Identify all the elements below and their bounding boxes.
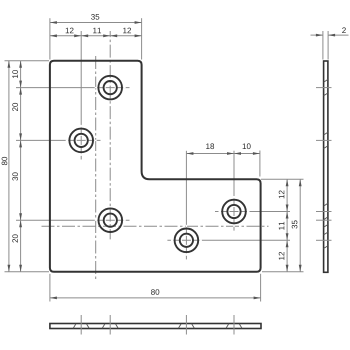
centerline: hole H1 row [16, 87, 130, 89]
side view hole marks H5 [324, 232, 328, 235]
bottom view hole marks H2 [73, 324, 76, 328]
label 12 (top left) [66, 28, 74, 34]
bottom view hole marks H1/H3 [102, 324, 105, 328]
side view hole marks H3 [324, 225, 328, 228]
dimension line 80 (left) [8, 61, 10, 272]
side view hole marks H2 [324, 132, 328, 135]
dimension line 35 (right outer) [299, 179, 301, 272]
centerline: hole H5 row [167, 239, 290, 241]
bottom view hole marks H5 [178, 324, 181, 328]
dimension: left extension line at plate top [5, 60, 50, 62]
centerline: hole H5 column [185, 151, 187, 260]
hole H1 inner circle [104, 81, 117, 94]
label 80 (left, rotated) [2, 157, 8, 165]
label 10 (left chain, rotated) [12, 70, 18, 78]
centerline: hole H4 column [233, 151, 235, 231]
bottom view centerline crossing H2 column [80, 315, 82, 335]
centerline: vertical symmetry axis of upright arm [95, 56, 97, 280]
dimension line 2 (right tail) [328, 34, 348, 36]
dimension line 12/11/12 (top chain) [50, 35, 142, 37]
label 2 (thickness) [342, 27, 346, 33]
dimension: left extension line at plate bottom [5, 271, 50, 273]
centerline: hole H2 row [16, 139, 101, 141]
label 12 (top right) [123, 28, 131, 34]
hole H3 inner circle [104, 214, 117, 227]
side view hole marks H4 [324, 203, 328, 206]
hole H2 outer circle [69, 129, 93, 153]
bottom view plate [50, 324, 261, 329]
dimension: thickness 2 extension line right [327, 31, 329, 60]
label 12 (right chain top, rotated) [279, 190, 285, 198]
side view centerline crossing H2 row [316, 139, 332, 141]
dimension: bottom 80 extension line left [49, 274, 51, 302]
centerline gap breaks near holes [95, 87, 98, 89]
dimension: thickness 2 extension line left [322, 31, 324, 60]
side view centerline crossing H1 row [316, 87, 332, 89]
label 80 (bottom) [151, 289, 159, 295]
side view centerline crossing H4 row [316, 211, 332, 213]
label 35 (right outer, rotated) [292, 220, 298, 228]
label 35 (top) [91, 14, 99, 20]
label 18 (mid chain) [206, 143, 214, 149]
bottom view hole marks H4 [226, 324, 229, 328]
dimension: top width 35 extension line left [49, 18, 51, 59]
dimension: top width 35 extension line right [141, 18, 143, 59]
label 30 (left chain, rotated) [12, 172, 18, 180]
centerline: holes H1/H3 column [109, 31, 111, 239]
centerline: hole H3 row [16, 219, 130, 221]
hole H5 outer circle [175, 229, 199, 253]
dimension line 35 (top) [50, 22, 142, 24]
label 11 (top middle) [93, 28, 101, 34]
centerline: hole H4 row [215, 211, 290, 213]
dimension line 12/11/12 (right chain) [286, 179, 288, 272]
dimension: right extension line at plate bottom [262, 271, 304, 273]
label 20 (left chain upper, rotated) [12, 103, 18, 111]
side view centerline crossing H5 row [316, 239, 332, 241]
label 10 (mid chain) [243, 143, 251, 149]
dimension line 80 (bottom) [50, 297, 261, 299]
plate outline: L-shaped bracket front view [50, 61, 261, 272]
side view hole marks H1 [324, 79, 328, 82]
centerline: horizontal symmetry axis of lower arm [42, 225, 269, 227]
dimension: mid chain 18/10 extension at plate right edge [259, 151, 261, 177]
dimension line 18/10 (mid chain) [186, 153, 260, 155]
dimension: right extension line at arm top [261, 178, 304, 180]
hole H5 inner circle [180, 234, 193, 247]
hole H1 outer circle [98, 76, 122, 100]
dimension: bottom 80 extension line right [260, 274, 262, 302]
label 20 (left chain lower, rotated) [12, 234, 18, 242]
label 12 (right chain bottom, rotated) [279, 252, 285, 260]
hole H4 inner circle [227, 205, 240, 218]
centerline: hole H2 column [80, 31, 82, 160]
bottom view centerline crossing H4 column [233, 315, 235, 335]
hole H4 outer circle [222, 200, 246, 224]
hole H2 inner circle [75, 134, 88, 147]
dimension line 2 (left tail) [311, 34, 323, 36]
hole H3 outer circle [99, 208, 123, 232]
side view centerline crossing H3 row [316, 219, 332, 221]
dimension line 10/20/30/20 (left chain) [20, 61, 22, 272]
side view plate (right) [324, 61, 328, 272]
bottom view centerline crossing H5 column [185, 315, 187, 335]
bottom view centerline crossing H1/H3 column [109, 315, 111, 335]
label 11 (right chain, rotated) [279, 222, 285, 230]
